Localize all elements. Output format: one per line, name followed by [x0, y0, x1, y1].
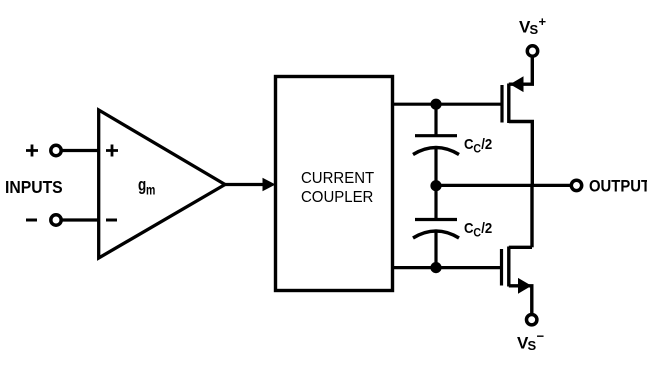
svg-text:C: C — [473, 143, 481, 156]
wire coupler bottom output to gate of Q2 — [393, 266, 501, 269]
transistor Q1 source arrow — [510, 76, 524, 92]
terminal OUTPUT — [571, 180, 581, 190]
transistor Q2 source lead — [509, 286, 532, 315]
capacitor C1 top plate — [415, 134, 457, 137]
wire junction to capacitor C1 — [434, 104, 437, 134]
svg-text:g: g — [138, 176, 146, 195]
label gm — [138, 176, 146, 195]
svg-text:−: − — [537, 329, 545, 344]
op-amp gm triangle — [99, 110, 225, 258]
label CC/2 top — [464, 135, 492, 155]
wire middle node to capacitor C2 — [434, 186, 437, 218]
svg-text:C: C — [464, 135, 474, 152]
svg-text:S: S — [530, 22, 539, 37]
transistor Q1 channel bar — [507, 84, 510, 124]
svg-text:m: m — [146, 182, 155, 198]
capacitor C2 curved plate — [413, 231, 459, 238]
svg-text:S: S — [528, 338, 537, 353]
label INPUTS — [5, 177, 63, 197]
terminal VS+ — [527, 46, 537, 56]
label COUPLER — [301, 189, 373, 206]
svg-text:C: C — [464, 219, 474, 236]
svg-text:+: + — [539, 14, 547, 29]
wire op-amp to coupler with arrow — [225, 183, 263, 186]
svg-text:C: C — [473, 227, 481, 240]
op-amp - input mark — [106, 219, 117, 222]
wire middle node to output — [436, 184, 572, 187]
node IN+ plus sign — [26, 145, 38, 157]
wire IN+ to op-amp — [62, 149, 98, 152]
svg-text:CURRENT: CURRENT — [301, 170, 374, 187]
transistor Q1 source lead — [509, 56, 533, 84]
svg-text:OUTPUT: OUTPUT — [589, 178, 647, 196]
terminal IN- — [51, 215, 61, 225]
transistor Q2 source arrow — [518, 278, 532, 294]
label CURRENT — [301, 170, 374, 187]
junction node top — [430, 99, 441, 110]
transistor Q2 channel bar — [507, 247, 510, 287]
node IN- minus sign — [26, 219, 37, 222]
current coupler box — [276, 77, 393, 291]
svg-text:INPUTS: INPUTS — [5, 177, 63, 197]
junction node bottom — [430, 262, 441, 273]
terminal VS- — [527, 315, 537, 325]
capacitor C2 top plate — [415, 218, 457, 221]
svg-text:COUPLER: COUPLER — [301, 189, 373, 206]
transistor Q1 drain lead — [509, 122, 533, 186]
label OUTPUT — [589, 178, 647, 196]
svg-text:/2: /2 — [481, 135, 492, 152]
op-amp + input mark — [106, 145, 118, 157]
wire coupler top output to gate of Q1 — [393, 103, 501, 106]
label CC/2 bottom — [464, 219, 492, 239]
capacitor C1 curved plate — [413, 148, 459, 155]
transistor Q2 drain lead — [509, 246, 532, 249]
wire output line down to Q2 drain — [530, 185, 533, 247]
transistor Q1 gate bar — [500, 85, 503, 123]
wire IN- to op-amp — [62, 218, 98, 221]
svg-text:/2: /2 — [481, 219, 492, 236]
wire C1 to middle node — [434, 148, 437, 186]
transistor Q2 gate bar — [500, 249, 503, 286]
wire C2 to bottom junction — [434, 232, 437, 268]
junction node middle — [430, 180, 441, 191]
terminal IN+ — [51, 145, 61, 155]
